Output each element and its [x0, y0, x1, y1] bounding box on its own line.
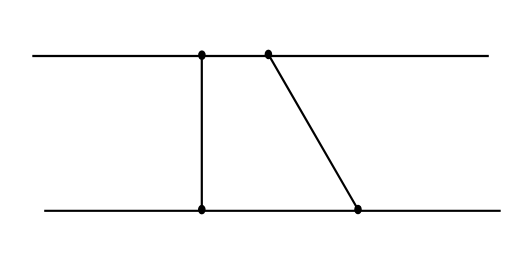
node D: junction of diagonal branch and bottom rail [354, 205, 362, 215]
node A: junction of vertical branch and top rail [198, 50, 206, 60]
node C: junction of vertical branch and bottom rail [198, 205, 206, 215]
wire: bottom horizontal rail [44, 210, 501, 212]
wire: diagonal branch [268, 54, 358, 209]
wire: top horizontal rail [32, 55, 489, 57]
wire: vertical branch [201, 55, 203, 210]
node B: junction of diagonal branch and top rail [265, 50, 273, 60]
